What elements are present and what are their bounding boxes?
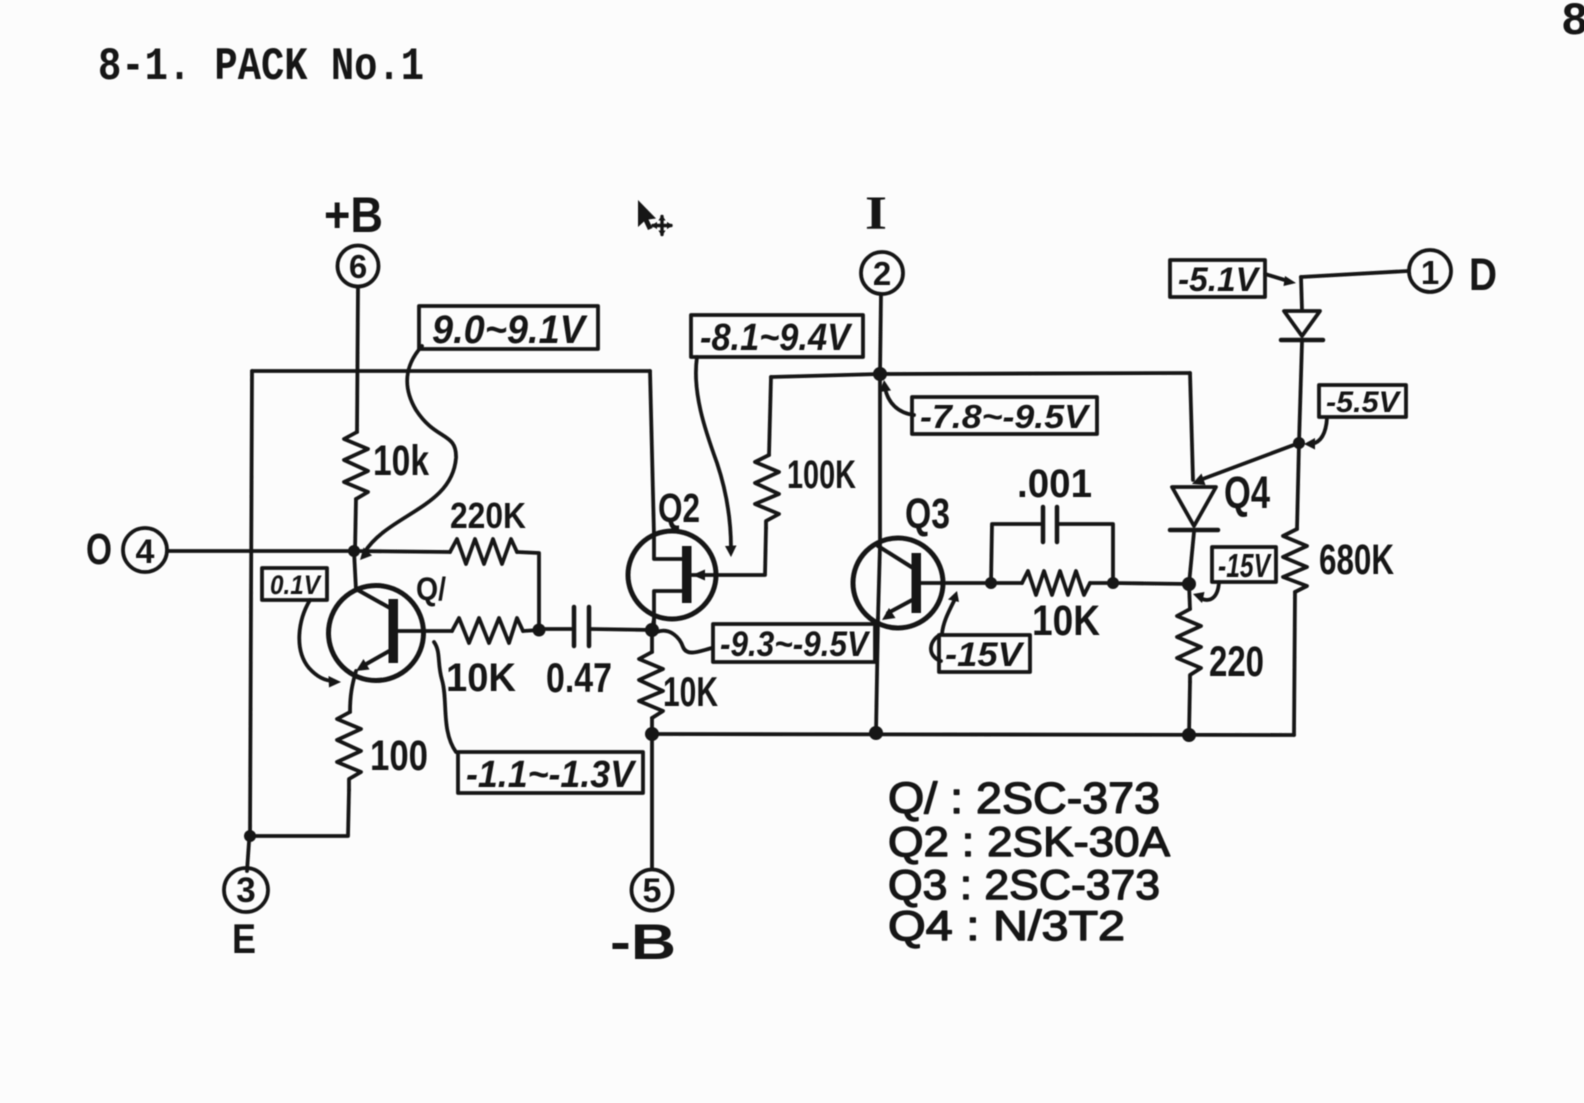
wire top bus left <box>252 369 650 373</box>
svg-text:220: 220 <box>1209 638 1264 686</box>
wire left vertical <box>250 371 252 836</box>
node bottom J9 <box>645 727 659 741</box>
wire J9 to T5 <box>650 734 654 869</box>
svg-text:D: D <box>1469 249 1497 300</box>
voltage box 9.0~9.1V <box>419 306 598 352</box>
voltage box -15V (right) <box>1212 547 1276 584</box>
wire Q3 emitter to bottom bus <box>876 618 878 733</box>
svg-text:-5.5V: -5.5V <box>1326 386 1402 419</box>
node J12 <box>1182 728 1196 742</box>
voltage box -1.1~-1.3V <box>458 752 643 796</box>
capacitor C1 0.47 <box>539 607 652 701</box>
transistor Q3 <box>853 374 950 628</box>
wire J1 to Q1 collector <box>354 551 356 590</box>
svg-text:220K: 220K <box>450 495 526 536</box>
leader from 9.0~9.1V to J1 <box>364 346 456 553</box>
resistor R1 10k (vertical) <box>344 432 368 499</box>
diode D1 <box>1281 277 1323 443</box>
wire R6 to J6 <box>1090 583 1189 584</box>
terminal 6 (+B) <box>324 187 383 287</box>
wire bus to R5 <box>769 377 771 455</box>
resistor R7 220 (vertical) <box>1177 609 1201 682</box>
leader from -15V to Q3 emitter <box>931 599 955 661</box>
node J11 <box>869 726 883 740</box>
wire R2 to J2 <box>523 630 539 631</box>
svg-text:1: 1 <box>1421 254 1439 291</box>
svg-text:+B: +B <box>324 187 383 243</box>
svg-text:3: 3 <box>236 871 255 910</box>
wire bottom bus <box>652 734 1294 735</box>
terminal 3 (E) <box>224 868 268 962</box>
voltage box -7.8~-9.5V <box>912 397 1097 435</box>
svg-text:Q/: Q/ <box>416 571 446 607</box>
transistor Q1 <box>329 571 447 681</box>
voltage box -15V (Q3) <box>939 635 1030 674</box>
wire top bus right <box>771 373 1190 377</box>
terminal 1 (D) <box>1409 249 1497 300</box>
leader from -5.1V to D1 wire <box>1265 274 1288 281</box>
svg-text:Q/ : 2SC-373: Q/ : 2SC-373 <box>888 774 1160 823</box>
svg-text:8: 8 <box>1561 0 1584 48</box>
node J8 <box>244 830 256 842</box>
svg-text:100: 100 <box>370 732 428 780</box>
resistor R5 100K (vertical) <box>755 455 779 528</box>
wire diagonal -5.5V node to Q4 <box>1200 443 1299 480</box>
voltage box -9.3~-9.5V <box>713 624 875 664</box>
svg-text:O: O <box>86 525 112 574</box>
svg-text:I: I <box>865 187 887 240</box>
voltage box -5.5V <box>1319 385 1406 419</box>
svg-text:9.0~9.1V: 9.0~9.1V <box>432 308 588 352</box>
svg-text:100K: 100K <box>787 453 856 497</box>
resistor R6 10K (horizontal) <box>1022 571 1090 595</box>
node J6 <box>1182 577 1196 591</box>
svg-text:10K: 10K <box>446 656 516 700</box>
terminal 2 (I) <box>861 187 903 294</box>
svg-text:.001: .001 <box>1017 462 1092 506</box>
voltage box -8.1~9.4V <box>691 315 863 359</box>
wire J3 to R4 <box>650 630 654 652</box>
wire T2 to bus <box>880 294 881 374</box>
wire T4 to J1 <box>167 549 354 553</box>
svg-text:-B: -B <box>610 914 676 970</box>
voltage box 0.1V <box>262 568 327 600</box>
svg-text:4: 4 <box>136 533 155 571</box>
wire T6 to R1 <box>357 287 358 433</box>
wire Q3 base to J4 <box>921 581 991 585</box>
svg-text:-15V: -15V <box>945 636 1026 674</box>
svg-text:-8.1~9.4V: -8.1~9.4V <box>700 317 852 359</box>
terminal 4 (O) <box>86 525 167 574</box>
svg-text:6: 6 <box>349 248 367 285</box>
svg-text:Q2: Q2 <box>658 485 700 531</box>
node J3 <box>645 623 659 637</box>
resistor R8 680K (vertical) <box>1283 529 1307 592</box>
svg-text:8-1. PACK No.1: 8-1. PACK No.1 <box>98 41 424 93</box>
svg-text:Q4: Q4 <box>1224 467 1270 518</box>
node J10 <box>873 367 887 381</box>
leader from -7.8~-9.5V to J10 <box>885 388 914 415</box>
cursor <box>638 200 673 236</box>
resistor R2 10K (horizontal) <box>452 618 523 643</box>
parts list <box>888 774 1170 949</box>
svg-text:-15V: -15V <box>1218 547 1272 584</box>
wire R4 to bottom bus <box>650 718 654 734</box>
svg-text:Q2 : 2SK-30A: Q2 : 2SK-30A <box>888 818 1170 865</box>
wire J8 to T3 <box>247 842 249 871</box>
leader from -5.5V to J7 <box>1312 418 1327 444</box>
svg-text:-5.1V: -5.1V <box>1178 261 1261 299</box>
node J4 <box>985 577 997 589</box>
wire R7 to bottom bus <box>1189 682 1190 735</box>
svg-text:Q3: Q3 <box>905 490 950 538</box>
voltage box -5.1V <box>1170 260 1265 299</box>
svg-text:Q3 : 2SC-373: Q3 : 2SC-373 <box>888 861 1160 908</box>
resistor R9 220K (horizontal) <box>450 539 517 564</box>
svg-text:5: 5 <box>643 872 662 910</box>
svg-text:10K: 10K <box>1032 597 1100 645</box>
wire J1 to R9 <box>354 551 450 552</box>
svg-text:10K: 10K <box>663 668 718 715</box>
leader from 0.1V to Q1 emitter <box>299 600 334 681</box>
wire J6 to R7 <box>1189 584 1190 609</box>
leader from -1.1~-1.3V to Q1 <box>434 642 456 752</box>
svg-text:2: 2 <box>873 255 891 292</box>
leader from right -15V to J6 <box>1200 582 1219 600</box>
svg-text:680K: 680K <box>1319 536 1394 584</box>
svg-text:0.47: 0.47 <box>546 654 612 701</box>
svg-text:-7.8~-9.5V: -7.8~-9.5V <box>920 398 1091 435</box>
wire Q1 emitter down <box>350 671 356 712</box>
wire R1 to node J1 <box>355 499 356 551</box>
node J2 <box>533 624 546 637</box>
node J1 <box>348 545 360 557</box>
leader from -8.1~9.4V to Q2 gate <box>696 357 731 548</box>
svg-text:Q4 : N/3T2: Q4 : N/3T2 <box>888 902 1125 949</box>
svg-text:E: E <box>232 915 256 962</box>
capacitor C2 .001 <box>991 462 1113 583</box>
wire Q1 base to R2 <box>398 629 452 633</box>
node J7 <box>1293 437 1305 449</box>
resistor R3 100 (vertical) <box>337 712 361 790</box>
wire J4 to R6 <box>991 581 1022 585</box>
wire R8 to bottom bus <box>1294 592 1295 735</box>
resistor R4 10K (vertical, to -B) <box>639 652 663 718</box>
wire D1 to T1 <box>1301 271 1408 277</box>
svg-text:-9.3~-9.5V: -9.3~-9.5V <box>720 625 870 664</box>
svg-text:-1.1~-1.3V: -1.1~-1.3V <box>466 754 636 796</box>
wire R3 to J8 <box>256 790 349 836</box>
leader from J3 to -9.3~-9.5V <box>657 631 712 653</box>
wire R9 to J2 <box>517 552 539 630</box>
wire J7 to R8 <box>1297 443 1299 529</box>
node J5 <box>1107 577 1119 589</box>
terminal 5 (-B) <box>610 870 676 971</box>
svg-text:0.1V: 0.1V <box>270 570 322 600</box>
transistor Q2 <box>628 371 766 624</box>
svg-text:10k: 10k <box>373 437 429 485</box>
diode Q4 <box>1170 373 1270 584</box>
wire Q2 source to J3 <box>652 619 654 630</box>
